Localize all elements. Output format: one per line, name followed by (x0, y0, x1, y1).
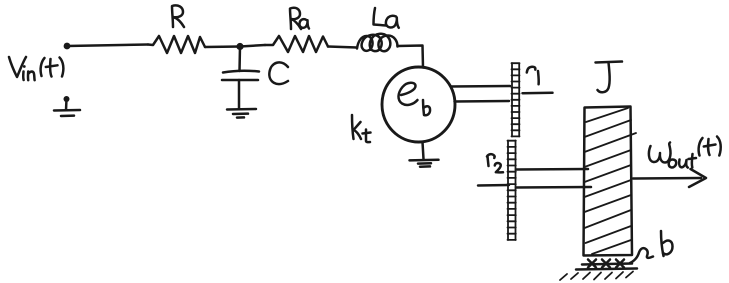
label La (374, 8, 399, 28)
motor U1 (circle) (382, 67, 455, 142)
shaft gear r2 to inertia J (two lines) (516, 168, 588, 171)
ground hatch strokes under J (560, 272, 633, 281)
label J (596, 62, 623, 93)
resistor R (148, 36, 205, 53)
wire R to node B (205, 45, 240, 48)
ground (input reference) (54, 96, 80, 116)
label R (172, 5, 184, 27)
label kt (torque constant) (352, 115, 371, 142)
node A (input terminal dot) (64, 43, 71, 50)
arrow omega_out (633, 169, 706, 187)
node B (junction) (236, 43, 243, 50)
resistor Ra (265, 36, 328, 52)
capacitor C (222, 47, 259, 109)
label eb (back-emf) (398, 83, 430, 115)
gear r1 (toothed rack) (512, 63, 520, 137)
ground (bearing under J): XXX row (588, 260, 624, 268)
shaft motor to gear r1 (two lines) (451, 85, 511, 88)
hatching inside J (585, 108, 637, 254)
inductor La (357, 34, 398, 51)
label Vin(t) (9, 57, 63, 80)
ground baseline lines under J (582, 264, 632, 265)
label Ra (290, 8, 309, 29)
wire node B to Ra (240, 45, 265, 47)
wire input node to resistor R (67, 45, 148, 47)
label r1 with underline (523, 67, 553, 94)
label r2 with underline (478, 154, 509, 185)
wire La to motor (398, 46, 424, 68)
label b (661, 231, 673, 256)
ground (motor) (410, 142, 439, 167)
label C (269, 62, 288, 84)
wire Ra to La (328, 47, 357, 48)
ground (capacitor) (227, 109, 256, 118)
gear r2 (toothed rack) (508, 141, 516, 241)
damper b link squiggle (630, 248, 653, 263)
label omega_out(t) (649, 137, 721, 168)
inertia J (rectangle) (584, 107, 633, 256)
